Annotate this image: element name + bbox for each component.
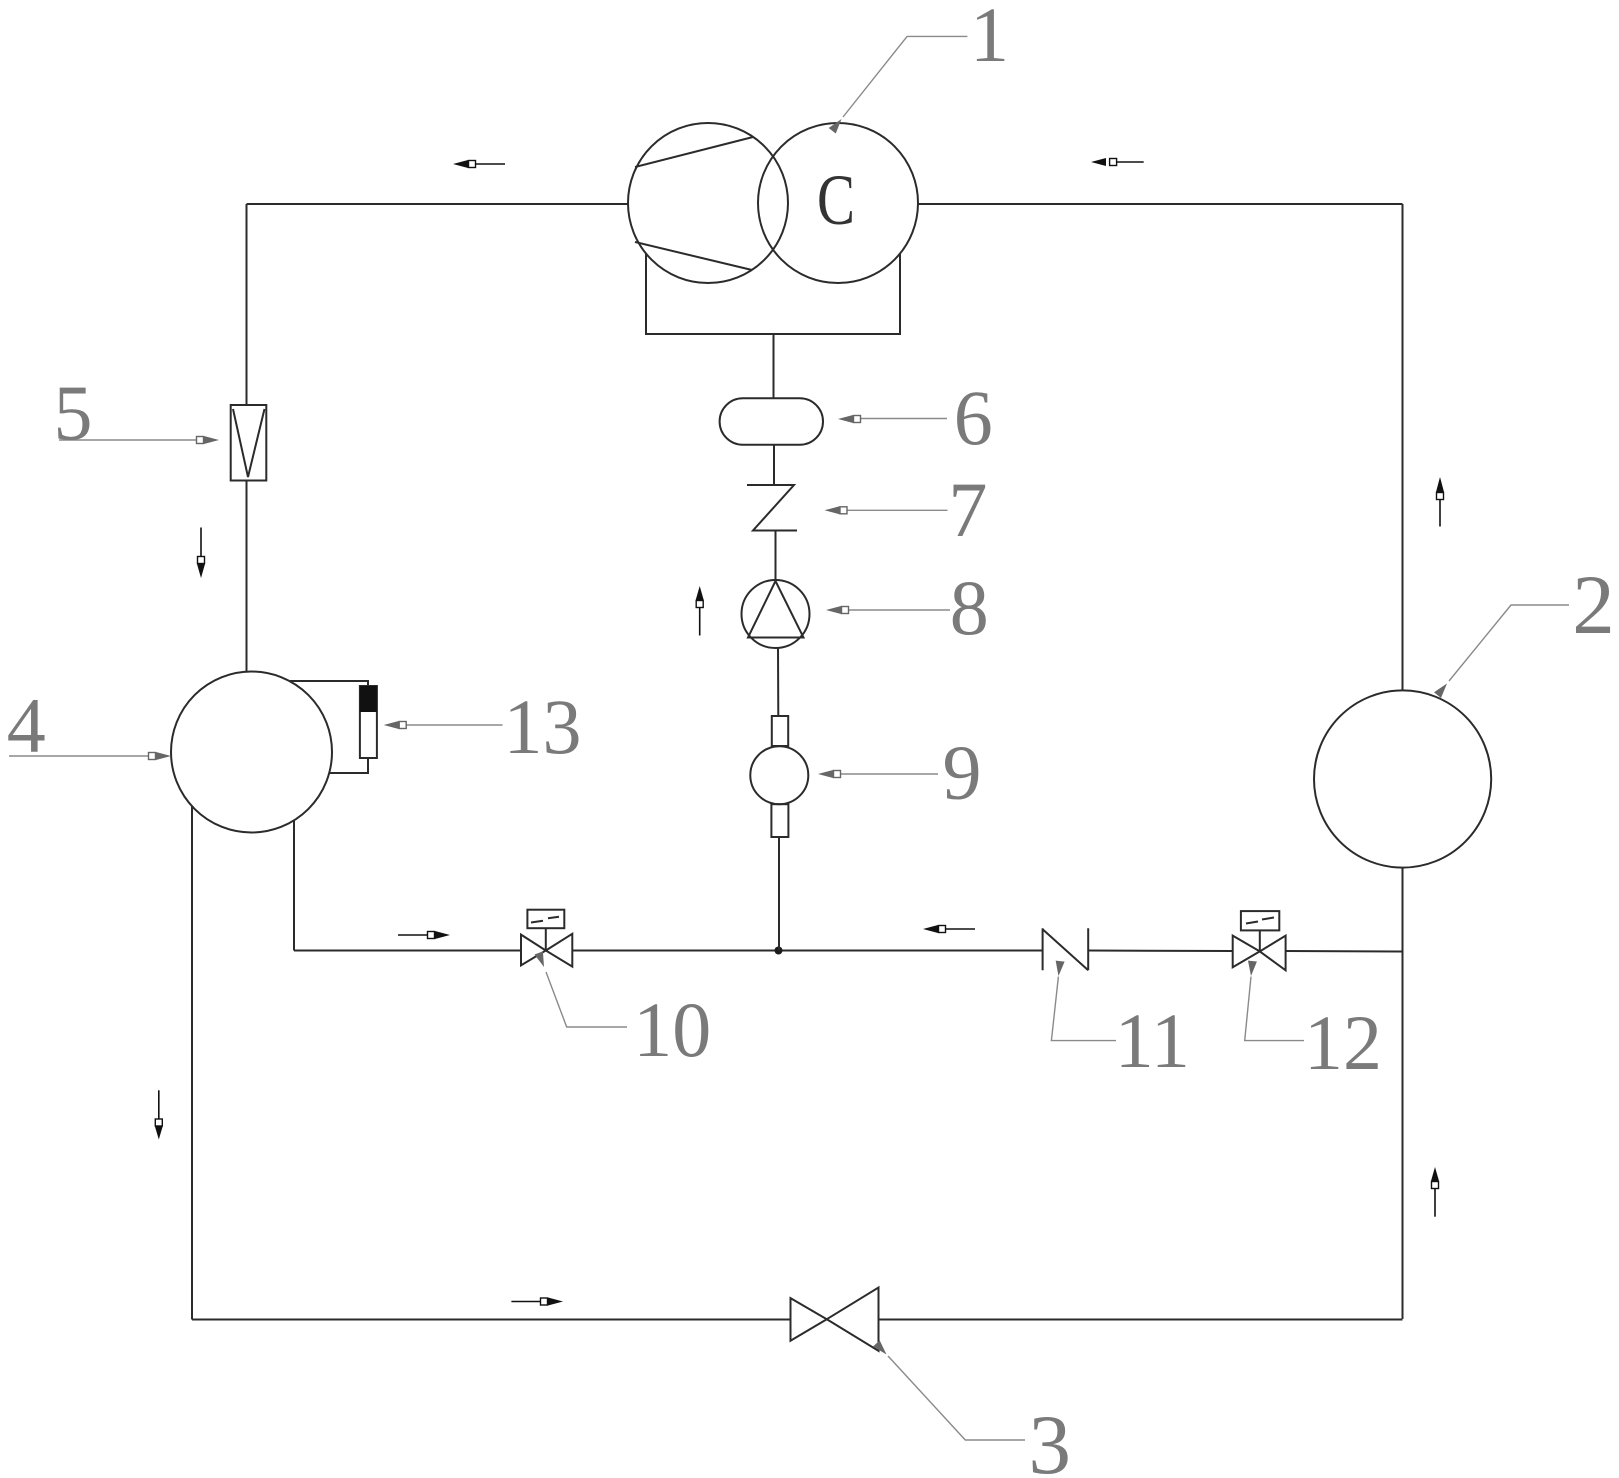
leader line label 4 — [9, 755, 149, 757]
leader line label 2 — [1449, 605, 1569, 681]
wire right vertical upper — [1402, 204, 1404, 691]
svg-text:4: 4 — [7, 682, 46, 769]
wire mid junction to check valve — [779, 950, 1043, 952]
wire mid valve12 to right vertical — [1286, 950, 1403, 953]
leader line label 8 — [849, 609, 951, 611]
flow arrow lower-left (down) — [155, 1090, 163, 1139]
filter 5 body — [231, 405, 267, 481]
valve 12 actuator dashes — [1246, 918, 1274, 924]
muffler 6 capsule — [720, 398, 823, 444]
wire riser tank4 to mid line — [293, 821, 295, 951]
svg-text:7: 7 — [948, 466, 987, 553]
check valve 11 — [1043, 928, 1089, 970]
leader arrowhead 2 — [1434, 681, 1450, 698]
valve 3 bowtie — [791, 1288, 879, 1351]
valve 12 bowtie — [1233, 936, 1286, 971]
sensor 13 body — [360, 686, 377, 758]
condenser 2 circle — [1314, 690, 1491, 867]
leader arrowhead 13 — [384, 721, 407, 729]
flow arrow left vertical (down) — [197, 528, 205, 579]
valve 10 actuator box — [527, 910, 564, 929]
wire capsule to restrictor — [773, 445, 775, 485]
svg-text:1: 1 — [970, 0, 1009, 78]
leader arrowhead 7 — [825, 506, 848, 514]
svg-text:12: 12 — [1304, 999, 1382, 1086]
wire left vertical upper (to filter) — [246, 204, 248, 405]
flow arrow bottom (right) — [511, 1298, 563, 1306]
pump 8 triangle — [748, 581, 804, 638]
leader line label 11 — [1051, 977, 1116, 1041]
filter 5 V insert — [233, 409, 265, 477]
tank 4 circle — [171, 672, 332, 833]
leader arrowhead 11 — [1054, 961, 1065, 977]
wire mid valve10 to junction — [572, 950, 779, 952]
wire mid check valve to valve12 — [1088, 950, 1233, 953]
flow arrow right vertical upper (up) — [1436, 477, 1444, 527]
leader arrowhead 6 — [838, 415, 861, 423]
wire bottom-left horizontal — [192, 1319, 791, 1321]
leader line label 6 — [861, 418, 948, 420]
svg-text:13: 13 — [504, 683, 582, 770]
leader arrowhead 8 — [826, 606, 849, 614]
pump 8 circle — [742, 580, 810, 648]
flow arrow mid-left (right) — [398, 931, 450, 939]
flow arrow top-right (left) — [1091, 158, 1144, 166]
node junction — [775, 947, 783, 955]
flow arrow top-left (left) — [453, 160, 505, 168]
wire right vertical lower — [1402, 868, 1404, 1320]
flow arrow pump branch (up) — [696, 586, 704, 636]
leader arrowhead 9 — [818, 770, 841, 778]
leader arrowhead 3 — [873, 1340, 890, 1357]
sensor 13 bottom bracket — [330, 758, 369, 773]
valve 10 bowtie — [521, 934, 572, 967]
compressor U1 bracket — [646, 254, 900, 334]
wire pump to sight glass — [777, 648, 779, 716]
wire sight glass to junction — [778, 837, 780, 951]
leader line label 9 — [841, 773, 939, 775]
compressor U1 body right circle — [758, 123, 918, 283]
sight glass 9 ball — [750, 746, 808, 804]
wire bottom-right horizontal — [879, 1319, 1403, 1321]
flow arrow lower-right (up) — [1431, 1167, 1439, 1217]
valve 12 stem — [1259, 930, 1261, 951]
wire restrictor to pump — [775, 531, 777, 581]
sensor 13 filled head — [360, 686, 377, 712]
wire left lower vertical — [191, 807, 193, 1320]
svg-text:10: 10 — [633, 986, 711, 1073]
svg-text:3: 3 — [1029, 1398, 1072, 1478]
wire compressor down pipe — [773, 334, 775, 399]
svg-text:11: 11 — [1115, 997, 1190, 1084]
wire filter to tank 4 — [246, 481, 248, 672]
compressor U1 upper vane chord — [635, 137, 753, 167]
leader line label 3 — [888, 1356, 1025, 1440]
svg-text:8: 8 — [950, 564, 989, 651]
wire top-right horizontal — [918, 203, 1403, 205]
leader arrowhead 12 — [1247, 961, 1257, 977]
leader line label 7 — [847, 509, 948, 511]
leader line label 10 — [546, 972, 627, 1027]
valve 10 actuator dashes — [531, 917, 559, 923]
leader arrowhead 4 — [149, 752, 172, 760]
svg-text:C: C — [817, 160, 855, 240]
valve 12 actuator box — [1241, 911, 1279, 930]
svg-text:6: 6 — [954, 374, 993, 461]
leader line label 13 — [406, 724, 503, 726]
leader line label 12 — [1245, 977, 1304, 1041]
svg-text:5: 5 — [54, 369, 93, 456]
svg-text:2: 2 — [1572, 558, 1615, 652]
valve 10 stem — [545, 928, 547, 950]
flow arrow mid-right (left) — [923, 925, 975, 933]
leader line label 5 — [59, 439, 197, 441]
compressor U1 body left circle — [628, 123, 788, 283]
wire top-left horizontal — [247, 203, 629, 205]
sight glass 9 top neck — [772, 716, 788, 746]
leader arrowhead 1 — [829, 116, 845, 133]
compressor U1 lower vane chord — [635, 242, 752, 270]
leader arrowhead 10 — [534, 951, 548, 968]
leader line label 1 — [843, 36, 967, 117]
wire mid left segment — [294, 950, 521, 952]
svg-text:9: 9 — [943, 729, 982, 816]
leader arrowhead 5 — [197, 436, 220, 444]
sight glass 9 bottom neck — [771, 804, 788, 837]
sensor 13 top bracket — [290, 681, 368, 686]
restrictor 7 zigzag — [747, 485, 797, 531]
